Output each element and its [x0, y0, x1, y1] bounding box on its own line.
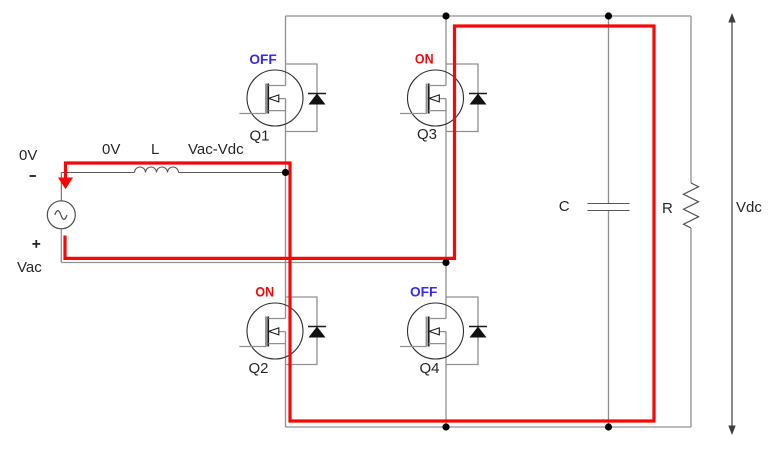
junction: top rail at right leg [442, 12, 449, 19]
svg-text:Q2: Q2 [249, 360, 269, 377]
transistor Q2 (low-side left MOSFET) [239, 303, 303, 359]
label: OFF (Q4 state, blue) [410, 283, 438, 299]
wire: load branch (right edge) [690, 16, 692, 427]
wire: AC source upper lead and inductor wire to node A [61, 173, 285, 201]
capacitor C [588, 204, 630, 211]
svg-text:0V: 0V [19, 147, 37, 164]
svg-text:Q4: Q4 [420, 360, 440, 377]
inductor L [135, 167, 179, 172]
junction: node A (inductor to left leg midpoint) [282, 169, 289, 176]
body diode of Q1 [286, 64, 327, 132]
transistor Q1 (high-side left MOSFET) [239, 70, 303, 126]
label: Q3 [417, 126, 437, 143]
svg-text:0V: 0V [102, 141, 120, 158]
svg-text:Vdc: Vdc [736, 199, 762, 216]
resistor R [684, 183, 699, 228]
label: 0V (source top) [19, 147, 37, 164]
label: OFF (Q1 state, blue) [249, 51, 277, 67]
label: Vac [17, 259, 42, 276]
transistor Q3 (high-side right MOSFET) [400, 70, 464, 126]
body diode of Q4 [446, 297, 487, 365]
svg-text:Vac: Vac [17, 259, 42, 276]
wire: AC source lower lead and return wire to node B [61, 229, 446, 263]
junction: bottom rail at right leg [442, 423, 449, 430]
label: Vac-Vdc (inductor right node voltage) [188, 141, 244, 158]
label: ON (Q3 state, red) [415, 51, 434, 67]
label: + (positive terminal) [32, 240, 40, 248]
label: Q1 [250, 128, 270, 145]
wire: top DC rail [286, 15, 692, 17]
label: L [151, 141, 159, 158]
label: Vdc [736, 199, 762, 216]
label: ON (Q2 state, red) [255, 283, 274, 299]
wire: right bridge leg (Q3/Q4 branch, drain-source trunk) [445, 16, 447, 427]
svg-text:OFF: OFF [249, 51, 277, 67]
AC source V1 (sine voltage source Vac) [47, 201, 75, 229]
svg-text:Vac-Vdc: Vac-Vdc [188, 141, 244, 158]
label: Q2 [249, 360, 269, 377]
label: R [662, 200, 673, 217]
svg-text:Q3: Q3 [417, 126, 437, 143]
label: - (negative terminal) [30, 175, 36, 177]
body diode of Q3 [446, 64, 487, 132]
junction: node B (return wire to right leg midpoint) [442, 259, 449, 266]
label: C [559, 198, 570, 215]
label: Q4 [420, 360, 440, 377]
svg-text:C: C [559, 198, 570, 215]
label: 0V (inductor left node voltage) [102, 141, 120, 158]
svg-text:ON: ON [415, 51, 434, 67]
wire: bottom DC rail [286, 426, 692, 428]
junction: bottom rail at capacitor branch [605, 423, 612, 430]
svg-text:Q1: Q1 [250, 128, 270, 145]
svg-text:R: R [662, 200, 673, 217]
svg-text:L: L [151, 141, 159, 158]
current path (red highlight loop) [58, 26, 654, 421]
svg-text:OFF: OFF [410, 283, 438, 299]
wire: capacitor branch [608, 16, 610, 427]
wire: left bridge leg (Q1/Q2 branch, drain-source trunk) [285, 16, 287, 427]
transistor Q4 (low-side right MOSFET) [400, 303, 464, 359]
body diode of Q2 [286, 297, 327, 365]
Vdc measurement arrow (double-headed) [728, 13, 735, 435]
svg-text:ON: ON [255, 283, 274, 299]
junction: top rail at capacitor branch [605, 12, 612, 19]
